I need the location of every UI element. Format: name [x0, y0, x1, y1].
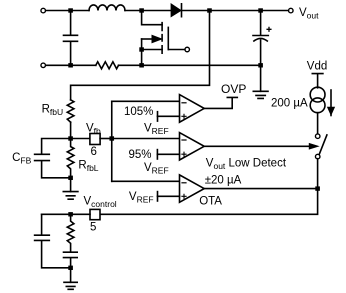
transistor Q1 MOSFET [142, 11, 163, 25]
terminal Vout [289, 8, 294, 13]
wire top rail mid [125, 10, 171, 12]
resistor RfbU [67, 100, 74, 122]
node feedback tap top [207, 8, 212, 12]
svg-text:200 µA: 200 µA [271, 98, 308, 110]
op-amp U3 OTA [180, 175, 205, 202]
inductor L1 [89, 5, 125, 11]
node bus [109, 136, 114, 140]
current source 200uA [310, 87, 325, 102]
svg-text:105%: 105% [124, 106, 153, 118]
diode D1 [171, 5, 180, 17]
VREF tap OTA [157, 192, 159, 201]
wire to ground fb [70, 178, 72, 192]
wire feedback to Vcontrol [100, 189, 318, 215]
VREF tap 95% [156, 150, 158, 159]
svg-text:RfbL: RfbL [78, 159, 98, 173]
node cap-in top [68, 8, 73, 12]
node out-cap top [258, 8, 263, 12]
op-amp U1 OVP comparator [180, 95, 205, 123]
svg-text:6: 6 [91, 146, 97, 158]
svg-text:CFB: CFB [12, 152, 32, 166]
wire bus to comp2 minus [112, 138, 180, 140]
node OTA switch [315, 186, 320, 190]
node Vfb [68, 136, 73, 140]
capacitor CFB [35, 139, 71, 178]
op-amp U2 low detect comparator [180, 133, 205, 160]
Vdd rail [312, 74, 323, 88]
resistor R-comp [67, 214, 74, 252]
wire bus to comp1 minus [112, 100, 180, 102]
wire top rail right [182, 10, 289, 12]
svg-text:RfbU: RfbU [42, 104, 64, 118]
arrow current direction [330, 90, 332, 116]
svg-text:VREF: VREF [144, 162, 169, 176]
capacitor C-comp2 parallel [35, 214, 71, 267]
svg-text:±20 µA: ±20 µA [205, 174, 242, 186]
wire switch down [317, 159, 319, 189]
svg-text:Vout: Vout [299, 7, 319, 20]
input terminal bottom [41, 63, 46, 68]
svg-text:OVP: OVP [221, 82, 246, 96]
capacitor C-comp series [64, 252, 78, 268]
svg-text:Vcontrol: Vcontrol [84, 195, 117, 209]
svg-text:Vfb: Vfb [86, 122, 101, 136]
ground out [253, 91, 268, 98]
capacitor C-in [64, 11, 78, 66]
wire source to switch [317, 113, 319, 134]
svg-text:Vdd: Vdd [307, 60, 327, 72]
wire top rail left [46, 10, 89, 12]
node source bottom [139, 63, 144, 67]
wire OTA output [204, 188, 317, 190]
pin 6 box [90, 134, 100, 145]
node RfbL bottom [68, 176, 73, 180]
wire to ground comp [70, 268, 72, 283]
capacitor C-out polarized [253, 11, 268, 36]
switch S1 [315, 134, 320, 139]
node cap-in bottom [68, 63, 73, 67]
wire U2 output arrow [204, 145, 310, 147]
svg-text:95%: 95% [129, 149, 152, 161]
wire OVP output [204, 97, 237, 108]
svg-text:VREF: VREF [144, 123, 169, 137]
wire to ground out [260, 65, 262, 91]
node comp bottom [68, 266, 73, 270]
gate lead terminal [168, 49, 185, 51]
wire pin6 to bus [100, 138, 112, 140]
pin 5 box [90, 209, 100, 219]
node Vcontrol [68, 212, 73, 216]
input terminal top [41, 8, 46, 13]
ground comp [64, 282, 77, 289]
wire bottom rail right [119, 64, 261, 66]
wire node to pin6 [71, 138, 90, 140]
svg-text:5: 5 [90, 222, 96, 234]
wire RfbU to node [70, 122, 72, 138]
ground fb [63, 192, 78, 200]
node drain top [139, 8, 144, 12]
resistor RfbL [67, 139, 74, 178]
wire pin5 left [42, 213, 90, 215]
svg-text:OTA: OTA [199, 195, 222, 207]
VREF tap 105% [157, 112, 159, 121]
svg-text:Vout Low Detect: Vout Low Detect [206, 157, 287, 171]
resistor R-sense [96, 62, 119, 69]
wire bottom rail left [46, 64, 96, 66]
plus sign C-out [267, 27, 271, 31]
svg-text:VREF: VREF [129, 191, 154, 205]
node gnd bottom rail [258, 63, 263, 67]
wire Vout sense down [71, 11, 210, 100]
wire bus to comp3 minus [112, 180, 180, 182]
wire bus vertical [111, 101, 113, 181]
